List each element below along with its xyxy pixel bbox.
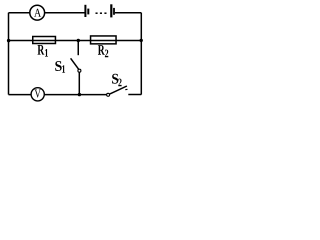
ammeter A bbox=[30, 5, 45, 20]
wire S1 branch lower vertical bbox=[78, 72, 80, 94]
switch S2 pivot circle bbox=[107, 93, 110, 96]
wire bottom middle (voltmeter to S2) bbox=[45, 94, 107, 96]
resistor R1 bbox=[33, 37, 56, 57]
wire top right (battery to corner) bbox=[115, 12, 141, 14]
wire S1 branch upper vertical bbox=[77, 41, 79, 56]
switch S2 blade bbox=[110, 86, 127, 94]
wire top middle (ammeter to battery) bbox=[45, 12, 85, 14]
battery cell 2 short plate bbox=[113, 8, 115, 15]
node left junction bbox=[7, 39, 10, 42]
wire middle horizontal bbox=[9, 40, 142, 42]
wire left vertical bbox=[8, 13, 10, 95]
label S1 bbox=[55, 61, 65, 73]
battery cell 1 long plate bbox=[84, 5, 86, 17]
wire right vertical bbox=[140, 13, 142, 95]
wire bottom left (corner to voltmeter) bbox=[9, 94, 32, 96]
node right junction bbox=[140, 39, 143, 42]
resistor R2 bbox=[91, 36, 117, 57]
wire top left (corner to ammeter) bbox=[9, 12, 31, 14]
wire bottom right (S2 to corner) bbox=[128, 94, 141, 96]
node bottom junction bbox=[78, 93, 81, 96]
switch S2 contact tick bbox=[125, 88, 127, 90]
label S2 bbox=[112, 74, 121, 86]
voltmeter V bbox=[31, 88, 44, 101]
battery cell 2 long plate bbox=[110, 4, 112, 17]
node middle junction bbox=[77, 39, 80, 42]
battery dashed (omitted cells) bbox=[96, 12, 107, 14]
battery cell 1 short plate bbox=[87, 9, 89, 15]
switch S1 pivot circle bbox=[78, 69, 81, 72]
switch S1 blade bbox=[71, 58, 79, 69]
